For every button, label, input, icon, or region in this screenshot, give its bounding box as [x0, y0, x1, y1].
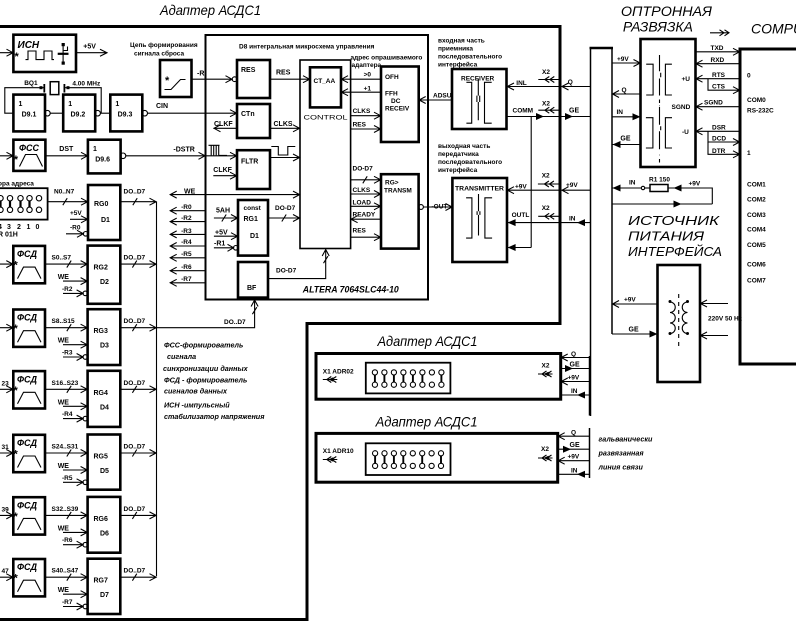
constant register RG1: [238, 200, 268, 256]
svg-text:RG7: RG7: [94, 578, 109, 585]
wire DO..D7 RG0 to bus: [120, 189, 156, 206]
wire -R2 out: [170, 215, 206, 225]
svg-text:*: *: [15, 51, 20, 63]
wire crystal to D9.2 output node: [68, 88, 101, 114]
data shaper FSD for RG5: [13, 435, 45, 472]
svg-text:SGND: SGND: [704, 100, 723, 107]
wire CLKS CONTROL to RECEIV: [351, 108, 381, 119]
title Adapter ASDS1 (second): [377, 333, 478, 349]
address jumper block: [0, 181, 48, 220]
svg-text:ФСД: ФСД: [17, 500, 38, 510]
data shaper FSD for RG2: [13, 246, 45, 283]
svg-text:RTS: RTS: [712, 72, 726, 79]
svg-text:-U: -U: [682, 129, 689, 136]
svg-text:S8..S15: S8..S15: [52, 318, 76, 325]
svg-text:WE: WE: [184, 189, 196, 196]
svg-text:DST: DST: [59, 146, 74, 153]
svg-text:-R7: -R7: [62, 599, 73, 606]
svg-text:ADSU: ADSU: [433, 93, 452, 100]
svg-text:>0: >0: [364, 72, 372, 79]
data shaper FSD for RG3: [13, 310, 45, 347]
wire -R4 to RG4: [62, 411, 88, 422]
adapter ASDS1 third box: [316, 433, 558, 482]
svg-text:RG3: RG3: [94, 328, 109, 335]
transformer RECEIVER: [452, 69, 507, 129]
svg-text:RG0: RG0: [94, 201, 109, 208]
svg-text:S16..S23: S16..S23: [52, 380, 79, 387]
wire -R3 out: [170, 228, 206, 238]
connector X2 stub +9V: [538, 173, 559, 188]
svg-text:-OUT: -OUT: [432, 203, 448, 210]
wire -R2 to RG2: [62, 286, 88, 297]
svg-text:+9V: +9V: [566, 182, 578, 189]
svg-text:-DSTR: -DSTR: [173, 147, 194, 154]
wire IN adapter 3: [558, 467, 590, 478]
svg-text:-R: -R: [197, 71, 204, 78]
wire DSR computer to optobox: [696, 125, 741, 135]
svg-text:ИСН: ИСН: [18, 40, 40, 51]
register RG3: [88, 309, 121, 365]
svg-text:COM2: COM2: [747, 197, 766, 204]
wire DO..D7 RG4 to bus: [120, 380, 156, 393]
svg-text:47: 47: [2, 568, 10, 575]
svg-text:1: 1: [93, 146, 97, 153]
wire CLKS CTn to CONTROL: [270, 121, 300, 132]
resistor R1 150: [645, 177, 671, 192]
svg-text:-R3: -R3: [181, 228, 192, 235]
wire input to FSD RG6: [0, 506, 13, 519]
wire +9V comm line to transformer: [612, 297, 658, 308]
inverter D9.3: [110, 95, 147, 132]
wire bus branch to BF: [157, 300, 259, 328]
svg-text:CTS: CTS: [712, 84, 726, 91]
svg-text:синхронизации данных: синхронизации данных: [163, 364, 249, 373]
wire +9V to TRANSMITTER: [507, 184, 559, 194]
svg-text:COM5: COM5: [747, 242, 766, 249]
wire INL RECEIVER to connector: [507, 80, 559, 90]
inverter D9.1: [13, 95, 50, 132]
wire D9.1 to D9.2: [50, 112, 63, 114]
svg-text:1: 1: [19, 101, 23, 108]
svg-text:D8 интегральная микросхема уп: D8 интегральная микросхема управления: [239, 44, 375, 51]
title Adapter ASDS1 (main): [159, 2, 261, 18]
optocoupler symbol lower: [646, 107, 672, 149]
svg-text:COM0: COM0: [747, 97, 766, 104]
wire -R5 to RG5: [62, 475, 88, 486]
wire crystal feedback loop to D9.1 input: [5, 88, 40, 114]
svg-text:OFH: OFH: [385, 74, 399, 81]
svg-text:N0..N7: N0..N7: [54, 189, 75, 196]
svg-text:+5V: +5V: [70, 210, 82, 217]
svg-text:DO..D7: DO..D7: [124, 189, 146, 196]
wire +9V comm line to optobox: [612, 56, 641, 67]
svg-text:X1 ADR02: X1 ADR02: [323, 369, 354, 376]
svg-text:входная часть: входная часть: [438, 38, 485, 45]
wire input to FSD RG5: [0, 444, 13, 457]
svg-text:SGND: SGND: [672, 104, 691, 111]
svg-text:+9V: +9V: [689, 181, 701, 188]
wire WE into CONTROL: [170, 189, 300, 199]
counter CT_AA: [310, 67, 341, 107]
transformer TRANSMITTER: [452, 178, 507, 262]
data shaper FSD for RG6: [13, 497, 45, 534]
svg-text:CTn: CTn: [241, 111, 255, 118]
wire 5AH to RG1: [214, 208, 238, 222]
svg-text:CT_AA: CT_AA: [314, 78, 336, 85]
svg-text:WE: WE: [58, 338, 70, 345]
wire CTS loop to computer: [708, 79, 740, 94]
svg-text:RS-232C: RS-232C: [747, 108, 774, 115]
svg-text:-R6: -R6: [62, 537, 73, 544]
wire DST FSS to D9.6: [45, 146, 88, 159]
svg-text:5AH: 5AH: [216, 208, 230, 215]
wire WE to RG4: [58, 399, 88, 410]
comm line segment adapter 2: [589, 356, 591, 416]
wire Q optobox to comm line: [612, 87, 641, 98]
svg-text:COMM: COMM: [513, 108, 534, 115]
wire S16..S23 FSD to RG4: [45, 380, 88, 393]
wire S40..S47 FSD to RG7: [45, 568, 88, 581]
wire RES CONTROL to TRANSM: [351, 228, 381, 241]
wire -DSTR from D9.6 into D8 to FLTR: [125, 147, 237, 160]
svg-text:ФСД - формирователь: ФСД - формирователь: [164, 376, 247, 385]
comm line cable rectangle: [590, 48, 614, 416]
svg-text:RG1: RG1: [244, 216, 259, 223]
svg-text:-R2: -R2: [181, 215, 192, 222]
svg-text:ФСС: ФСС: [19, 143, 40, 153]
svg-text:D4: D4: [100, 404, 109, 411]
svg-text:DO..D7: DO..D7: [224, 319, 246, 326]
svg-text:X2: X2: [542, 173, 550, 180]
reset shaper box: [160, 60, 192, 97]
optocoupler symbol upper: [646, 55, 672, 96]
svg-text:GE: GE: [570, 362, 580, 369]
wire WE to RG3: [58, 338, 88, 349]
data shaper FSD for RG7: [13, 559, 45, 596]
svg-text:ИНТЕРФЕЙСА: ИНТЕРФЕЙСА: [628, 243, 722, 259]
wire ADSU RECEIVER to RECEIV: [419, 93, 452, 104]
connector X2 mark adapter 2: [538, 363, 553, 378]
wire +9V to resistor R1: [668, 181, 712, 205]
svg-text:последовательного: последовательного: [438, 159, 502, 166]
wire +5V to RG1: [214, 230, 238, 240]
svg-text:+5V: +5V: [83, 44, 96, 51]
svg-text:ПИТАНИЯ: ПИТАНИЯ: [628, 230, 705, 244]
connector X1 ADR02: [323, 369, 354, 383]
wire -R5 out: [170, 251, 206, 261]
svg-text:интерфейса: интерфейса: [438, 61, 478, 69]
wire input to FSD RG2: [0, 255, 13, 268]
svg-text:Q: Q: [622, 87, 627, 94]
svg-text:D2: D2: [100, 279, 109, 286]
svg-text:X2: X2: [542, 101, 550, 108]
wire -R0 out: [170, 204, 206, 214]
svg-text:3: 3: [7, 224, 11, 231]
connector X1 ADR10: [323, 448, 354, 463]
connector X2 stub OUTL: [538, 205, 558, 219]
svg-text:RES: RES: [353, 228, 367, 235]
optocoupler isolation box: [641, 39, 696, 167]
svg-text:*: *: [14, 449, 19, 461]
svg-text:*: *: [14, 323, 19, 335]
svg-text:GE: GE: [620, 136, 630, 143]
svg-text:+9V: +9V: [624, 297, 636, 304]
svg-text:-R7: -R7: [181, 276, 192, 283]
svg-text:R1 150: R1 150: [649, 177, 670, 184]
svg-text:TRANSM: TRANSM: [384, 188, 412, 195]
wire DO..D7 RG5 to bus: [120, 444, 156, 457]
svg-text:CLKS: CLKS: [353, 108, 371, 115]
svg-text:S24..S31: S24..S31: [52, 444, 79, 451]
control chip D8 box: [206, 35, 429, 300]
data bus D0..D7 vertical: [156, 202, 158, 577]
wire WE to RG6: [58, 525, 88, 536]
svg-text:RG4: RG4: [94, 390, 109, 397]
svg-text:GE: GE: [570, 442, 580, 449]
svg-text:Адаптер АСДС1: Адаптер АСДС1: [159, 2, 261, 18]
svg-text:FLTR: FLTR: [241, 159, 258, 166]
connector X2 stub COMM: [538, 101, 558, 114]
wire RES to CT_AA: [270, 70, 310, 83]
inverter D9.6: [88, 140, 126, 174]
svg-text:*: *: [14, 260, 19, 272]
wire input to FSD RG7: [0, 568, 13, 581]
svg-text:ФСД: ФСД: [17, 374, 38, 384]
svg-text:CLKF: CLKF: [213, 167, 232, 174]
wire IN comm line to optobox: [612, 109, 641, 121]
svg-text:TRANSMITTER: TRANSMITTER: [455, 186, 504, 193]
title ISTOCHNIK PITANIYA INTERFEYSA: [628, 214, 722, 259]
svg-text:IN: IN: [617, 109, 624, 116]
jumper block adapter 2: [366, 363, 451, 394]
wire WE to RG7: [58, 587, 88, 598]
wire Q adapter 2: [561, 351, 590, 361]
svg-text:COM1: COM1: [747, 182, 766, 189]
svg-text:COM4: COM4: [747, 227, 766, 234]
svg-text:1: 1: [115, 101, 119, 108]
wire 220V input upper: [700, 300, 728, 307]
wire +9V border to comm line: [562, 182, 591, 194]
wire D9.2 to D9.3: [100, 112, 110, 114]
svg-text:DSR: DSR: [712, 125, 726, 132]
svg-text:DO..D7: DO..D7: [124, 380, 146, 387]
receiver decoder RECEIV: [381, 67, 419, 143]
svg-text:D7: D7: [100, 592, 109, 599]
CONTROL block: [300, 60, 351, 249]
svg-text:IN: IN: [571, 467, 578, 474]
svg-text:DO-D7: DO-D7: [275, 205, 296, 212]
svg-text:COM3: COM3: [747, 212, 766, 219]
svg-text:GE: GE: [569, 108, 579, 115]
pulse train symbol before FLTR: [209, 145, 228, 155]
wire CIN from D9.3 to CTn: [147, 103, 237, 117]
wire -R6 to RG6: [62, 537, 88, 548]
wire WE to RG2: [58, 274, 88, 285]
svg-text:D1: D1: [101, 217, 110, 224]
svg-text:TXD: TXD: [711, 45, 724, 52]
label galvanically isolated line: [598, 435, 653, 472]
wire S32..S39 FSD to RG6: [45, 506, 88, 519]
svg-text:WE: WE: [58, 399, 70, 406]
svg-text:WE: WE: [58, 587, 70, 594]
svg-text:RG>: RG>: [385, 180, 399, 187]
svg-text:-R6: -R6: [181, 264, 192, 271]
svg-text:+9V: +9V: [515, 184, 527, 191]
svg-text:RXD: RXD: [711, 57, 725, 64]
wire DO..D7 RG6 to bus: [120, 506, 156, 519]
svg-text:D9.2: D9.2: [71, 112, 86, 119]
svg-text:сигналов данных: сигналов данных: [164, 387, 228, 396]
svg-text:CLKS: CLKS: [274, 121, 293, 128]
wire IN adapter 2: [561, 388, 590, 399]
jumper block adapter 3: [366, 443, 451, 475]
svg-text:RES: RES: [353, 121, 367, 128]
svg-text:BQ1: BQ1: [24, 80, 38, 87]
wire IN border to comm line: [562, 216, 591, 227]
svg-text:приемника: приемника: [438, 46, 473, 53]
svg-text:сигнала: сигнала: [167, 352, 196, 361]
svg-text:IN: IN: [571, 388, 578, 395]
comm line segment adapter 3: [589, 428, 591, 478]
wire COMM RECEIVER to connector: [507, 108, 559, 121]
svg-text:+5V: +5V: [215, 230, 228, 237]
isolation barrier dash line: [658, 100, 661, 163]
svg-text:*: *: [14, 385, 19, 397]
svg-text:D9.6: D9.6: [95, 157, 110, 164]
wire CLKS CONTROL to TRANSM: [351, 187, 381, 198]
wire +5V output of ISN: [76, 44, 107, 57]
wire -R3 to RG3: [62, 350, 88, 361]
svg-text:D3: D3: [100, 343, 109, 350]
svg-text:*: *: [165, 75, 170, 87]
wire power return to comm line: [612, 201, 712, 208]
transmit register RG TRANSM: [381, 174, 419, 248]
label receiver input part: [438, 38, 502, 69]
wire >0 RECEIV to CT_AA: [341, 72, 381, 83]
svg-text:0: 0: [36, 224, 40, 231]
reset circuit label: [130, 42, 198, 58]
wire DO..D7 RG3 to bus: [120, 318, 156, 331]
label transmitter output part: [438, 143, 502, 174]
svg-text:Q: Q: [568, 79, 573, 86]
wire LOAD CONTROL to TRANSM: [351, 200, 381, 210]
title Adapter ASDS1 (third): [375, 414, 478, 430]
svg-text:S0..S7: S0..S7: [52, 255, 72, 262]
svg-text:IN: IN: [569, 216, 576, 223]
crystal BQ1: [24, 80, 101, 95]
wire input to FSD RG4: [0, 380, 13, 393]
svg-text:CLKF: CLKF: [214, 121, 233, 128]
wire -OUT TRANSM to TRANSMITTER: [419, 203, 453, 210]
wire -R reset to RES: [192, 71, 238, 83]
wire input to FSD RG3: [0, 319, 13, 332]
transformer windings symbol: [669, 294, 690, 346]
svg-text:RG6: RG6: [94, 516, 109, 523]
svg-text:-R0: -R0: [70, 225, 81, 232]
wire DO..D7 RG7 to bus: [120, 568, 156, 581]
svg-text:RES: RES: [276, 70, 291, 77]
svg-text:адрес опрашиваемого: адрес опрашиваемого: [351, 55, 423, 62]
svg-text:линия связи: линия связи: [598, 463, 644, 472]
address jumper pins: [0, 196, 42, 239]
svg-text:CIN: CIN: [156, 103, 168, 110]
svg-text:DO..D7: DO..D7: [124, 444, 146, 451]
svg-text:D9.1: D9.1: [22, 112, 37, 119]
svg-text:-R0: -R0: [181, 204, 192, 211]
wire Q border to comm line: [562, 79, 591, 90]
svg-text:0: 0: [747, 73, 751, 80]
svg-text:COMPUTER: COMPUTER: [751, 21, 796, 37]
connector X2 mark adapter 3: [538, 446, 553, 461]
svg-text:DTR: DTR: [712, 148, 726, 155]
svg-text:D5: D5: [100, 468, 109, 475]
svg-text:-R5: -R5: [62, 475, 73, 482]
inverter D9.2: [63, 95, 100, 132]
wire DO-D7 BF to CONTROL bottom: [268, 249, 329, 279]
svg-text:ОПТРОННАЯ: ОПТРОННАЯ: [621, 3, 712, 19]
wire +1 RECEIV to CT_AA: [341, 86, 381, 96]
wire S8..S15 FSD to RG3: [45, 318, 88, 331]
svg-text:+1: +1: [364, 86, 372, 93]
svg-text:1: 1: [68, 101, 72, 108]
svg-text:X1 ADR10: X1 ADR10: [323, 448, 354, 455]
wire Q adapter 3: [558, 430, 590, 440]
svg-text:D6: D6: [100, 530, 109, 537]
wire RXD computer to optobox: [696, 57, 741, 67]
label ALTERA 7064SLC44-10: [302, 285, 400, 296]
svg-text:OUTL: OUTL: [512, 212, 530, 219]
wire N0..N7 jumpers to RG0: [48, 189, 88, 206]
svg-text:31: 31: [2, 444, 10, 451]
title OPTRONNAYA RAZVYAZKA: [621, 3, 712, 35]
wire CLKF input to FLTR: [213, 167, 237, 179]
wire DO..D7 RG2 to bus: [120, 255, 156, 268]
wire FLTR to CONTROL with pulse symbol: [270, 147, 300, 162]
wire GE comm line to transformer: [612, 327, 658, 338]
wire TXD optobox to computer: [696, 45, 741, 55]
wire WE to RG5: [58, 463, 88, 474]
register RG4: [88, 371, 121, 427]
adapter ASDS1 main box outline: [0, 27, 560, 620]
svg-text:WE: WE: [58, 525, 70, 532]
svg-text:DC: DC: [391, 98, 401, 105]
svg-text:ALTERA 7064SLC44-10: ALTERA 7064SLC44-10: [302, 285, 400, 296]
wire IN comm line to R1: [612, 180, 645, 192]
svg-text:X2: X2: [542, 69, 550, 76]
wire S24..S31 FSD to RG5: [45, 444, 88, 457]
data shaper FSD for RG4: [13, 371, 45, 408]
svg-text:+9V: +9V: [617, 56, 629, 63]
counter CTn: [237, 104, 270, 138]
svg-text:*: *: [14, 154, 19, 166]
wire input to ISN: [0, 49, 13, 56]
svg-text:Адаптер АСДС1: Адаптер АСДС1: [377, 333, 478, 349]
svg-text:-R1: -R1: [214, 241, 225, 248]
svg-text:4: 4: [0, 224, 2, 231]
svg-text:WE: WE: [58, 274, 70, 281]
svg-text:220V 50 Hz: 220V 50 Hz: [708, 316, 743, 323]
svg-text:23: 23: [2, 380, 10, 387]
svg-text:адаптера: адаптера: [352, 62, 382, 69]
svg-text:-R4: -R4: [62, 411, 73, 418]
buffer BF: [238, 262, 268, 298]
svg-text:2: 2: [17, 224, 21, 231]
svg-text:R 01H: R 01H: [0, 232, 18, 239]
svg-text:COM7: COM7: [747, 278, 766, 285]
svg-text:DO..D7: DO..D7: [124, 506, 146, 513]
svg-text:LOAD: LOAD: [353, 200, 372, 207]
svg-text:RG5: RG5: [94, 454, 109, 461]
